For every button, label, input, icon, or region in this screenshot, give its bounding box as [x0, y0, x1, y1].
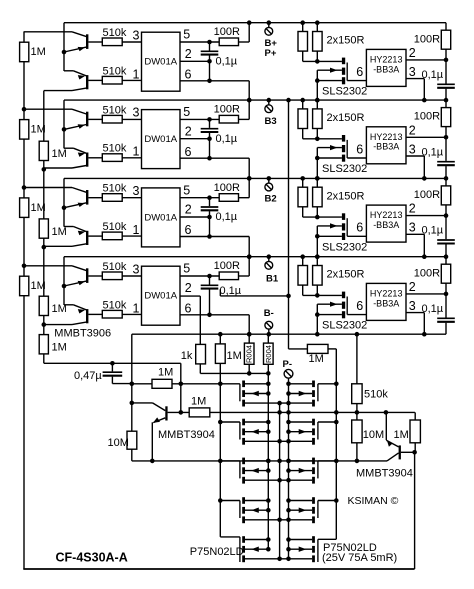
svg-text:10M: 10M [108, 437, 129, 449]
svg-text:B1: B1 [266, 274, 279, 285]
svg-text:100R: 100R [214, 182, 240, 194]
svg-text:DW01A: DW01A [144, 291, 177, 302]
svg-text:3: 3 [133, 262, 140, 276]
svg-text:DW01A: DW01A [144, 134, 177, 145]
svg-text:510k: 510k [103, 143, 127, 155]
svg-text:P+: P+ [265, 48, 277, 59]
svg-text:HY2213: HY2213 [370, 210, 403, 220]
svg-text:2: 2 [185, 281, 192, 295]
svg-text:1M: 1M [227, 350, 242, 362]
svg-text:10M: 10M [363, 429, 384, 441]
svg-text:HY2213: HY2213 [370, 289, 403, 299]
svg-text:B2: B2 [265, 194, 277, 205]
svg-text:0,1µ: 0,1µ [216, 211, 238, 223]
svg-text:6: 6 [185, 145, 192, 159]
svg-text:1M: 1M [394, 429, 409, 441]
svg-text:2x150R: 2x150R [327, 190, 365, 202]
svg-text:100R: 100R [414, 189, 440, 201]
svg-text:1: 1 [133, 67, 140, 81]
svg-text:P75N02LD: P75N02LD [190, 546, 244, 558]
svg-text:-BB3A: -BB3A [373, 220, 399, 230]
svg-text:1: 1 [133, 145, 140, 159]
svg-text:2: 2 [185, 203, 192, 217]
svg-text:DW01A: DW01A [144, 57, 177, 68]
svg-text:2: 2 [185, 124, 192, 138]
svg-text:KSIMAN ©: KSIMAN © [348, 495, 399, 507]
svg-text:5: 5 [183, 262, 190, 276]
svg-text:2: 2 [409, 202, 416, 216]
svg-text:3: 3 [409, 221, 416, 235]
svg-text:3: 3 [409, 142, 416, 156]
svg-text:B-: B- [264, 308, 274, 319]
svg-text:0,1µ: 0,1µ [422, 69, 444, 81]
svg-text:SLS2302: SLS2302 [322, 241, 367, 253]
svg-text:1M: 1M [52, 303, 67, 315]
svg-text:5: 5 [183, 28, 190, 42]
svg-text:-BB3A: -BB3A [373, 64, 399, 74]
svg-text:100R: 100R [414, 111, 440, 123]
svg-text:5: 5 [183, 105, 190, 119]
svg-text:2: 2 [185, 47, 192, 61]
svg-text:MMBT3904: MMBT3904 [158, 429, 215, 441]
svg-text:2: 2 [409, 46, 416, 60]
svg-text:1M: 1M [52, 148, 67, 160]
svg-text:1: 1 [133, 301, 140, 315]
svg-text:0,1µ: 0,1µ [422, 146, 444, 158]
svg-text:100R: 100R [414, 267, 440, 279]
svg-text:SLS2302: SLS2302 [322, 163, 367, 175]
svg-text:1M: 1M [52, 226, 67, 238]
svg-text:P-: P- [283, 359, 293, 370]
svg-text:0,47µ: 0,47µ [74, 370, 102, 382]
svg-text:1M: 1M [191, 396, 206, 408]
svg-text:-BB3A: -BB3A [373, 142, 399, 152]
svg-text:0,1µ: 0,1µ [422, 303, 444, 315]
svg-text:6: 6 [185, 68, 192, 82]
svg-text:1: 1 [133, 223, 140, 237]
svg-text:100R: 100R [214, 260, 240, 272]
svg-text:1M: 1M [52, 342, 67, 354]
svg-text:5: 5 [183, 183, 190, 197]
svg-text:510k: 510k [364, 388, 388, 400]
svg-text:MMBT3904: MMBT3904 [356, 467, 413, 479]
svg-text:0,1µ: 0,1µ [422, 225, 444, 237]
svg-text:B3: B3 [265, 116, 277, 127]
svg-text:R004: R004 [264, 345, 273, 363]
svg-text:6: 6 [356, 299, 363, 313]
svg-text:HY2213: HY2213 [370, 55, 403, 65]
svg-text:100R: 100R [214, 104, 240, 116]
svg-text:510k: 510k [103, 221, 127, 233]
svg-text:0,1µ: 0,1µ [216, 133, 238, 145]
svg-text:2: 2 [409, 280, 416, 294]
svg-text:510k: 510k [103, 299, 127, 311]
svg-text:100R: 100R [414, 33, 440, 45]
svg-text:6: 6 [356, 142, 363, 156]
svg-text:MMBT3906: MMBT3906 [54, 327, 111, 339]
svg-text:-BB3A: -BB3A [373, 298, 399, 308]
svg-text:SLS2302: SLS2302 [322, 320, 367, 332]
svg-text:510k: 510k [103, 183, 127, 195]
svg-text:3: 3 [133, 106, 140, 120]
svg-text:1M: 1M [31, 46, 46, 58]
svg-text:0,1µ: 0,1µ [216, 55, 238, 67]
svg-text:SLS2302: SLS2302 [322, 86, 367, 98]
svg-text:510k: 510k [103, 27, 127, 39]
svg-text:3: 3 [133, 184, 140, 198]
svg-text:CF-4S30A-A: CF-4S30A-A [56, 550, 128, 564]
svg-text:3: 3 [409, 65, 416, 79]
svg-text:100R: 100R [214, 26, 240, 38]
svg-text:2x150R: 2x150R [327, 112, 365, 124]
svg-text:2x150R: 2x150R [327, 269, 365, 281]
svg-text:DW01A: DW01A [144, 212, 177, 223]
svg-text:3: 3 [409, 299, 416, 313]
svg-text:3: 3 [133, 28, 140, 42]
svg-text:2: 2 [409, 123, 416, 137]
svg-text:(25V 75A 5mR): (25V 75A 5mR) [322, 552, 397, 564]
svg-text:1M: 1M [158, 367, 173, 379]
svg-text:6: 6 [185, 223, 192, 237]
svg-text:6: 6 [185, 302, 192, 316]
svg-text:510k: 510k [103, 104, 127, 116]
svg-text:6: 6 [356, 65, 363, 79]
svg-text:1k: 1k [181, 350, 193, 362]
svg-text:HY2213: HY2213 [370, 132, 403, 142]
svg-text:6: 6 [356, 221, 363, 235]
svg-text:510k: 510k [103, 65, 127, 77]
svg-text:1M: 1M [309, 353, 324, 365]
svg-text:2x150R: 2x150R [327, 35, 365, 47]
svg-text:R004: R004 [245, 345, 254, 363]
svg-text:510k: 510k [103, 261, 127, 273]
